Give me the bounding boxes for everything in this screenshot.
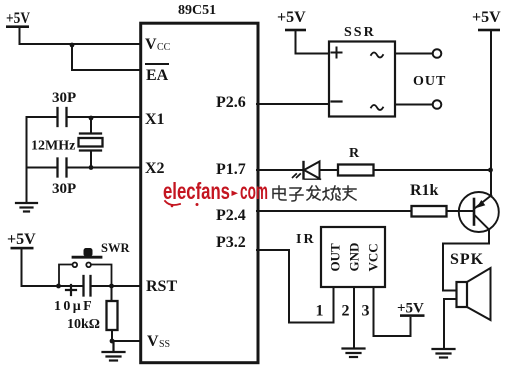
wire SSR out top — [395, 53, 433, 55]
ground IR — [343, 349, 365, 358]
wire X2 right segment — [67, 167, 141, 169]
svg-text:CC: CC — [157, 42, 171, 53]
wire P2.4 to R1k — [257, 210, 412, 212]
wire P3.2 to IR out — [257, 250, 334, 323]
crystal Y1 12MHz — [31, 134, 103, 154]
power +5V top-left — [6, 10, 30, 28]
wire R to +5V rail — [374, 169, 492, 171]
terminal circle out top — [433, 49, 442, 58]
wire X2 left segment — [27, 167, 58, 169]
svg-text:+5V: +5V — [397, 301, 424, 317]
wire right +5V rail down to transistor — [490, 31, 492, 196]
svg-text:R1k: R1k — [410, 182, 439, 199]
diode D1 LED — [293, 162, 321, 180]
svg-text:2: 2 — [342, 303, 350, 320]
power +5V SSR — [277, 9, 306, 31]
wire P2.6 to SSR — [257, 103, 329, 105]
wire SSR +5V stub — [296, 31, 330, 54]
junction RST right — [109, 284, 114, 289]
pin Vcc label — [145, 36, 171, 53]
transistor Q1 PNP — [459, 192, 499, 232]
烧 — [323, 186, 340, 200]
wire +5V stub to Vcc rail — [19, 28, 21, 44]
svg-text:SPK: SPK — [450, 251, 484, 268]
junction Vss — [110, 339, 115, 344]
wire X1 left segment — [27, 116, 58, 118]
SSR ac mark bottom — [371, 105, 383, 110]
wire crystal top lead — [90, 117, 92, 134]
resistor R2 10k — [67, 301, 118, 332]
wire cap to resistor — [111, 286, 113, 301]
svg-text:GND: GND — [347, 243, 362, 272]
友 — [343, 186, 356, 200]
pin Vss label — [147, 333, 170, 350]
terminal circle out bottom — [433, 100, 442, 109]
IC U1 89C51 — [141, 3, 258, 363]
speaker SPK — [450, 251, 491, 320]
svg-text:30P: 30P — [52, 90, 76, 106]
svg-text:X2: X2 — [145, 160, 165, 177]
svg-text:VCC: VCC — [366, 243, 381, 271]
svg-text:elecfans: elecfans — [163, 178, 230, 204]
svg-text:R: R — [349, 146, 360, 161]
svg-text:3: 3 — [362, 303, 370, 320]
wire speaker to ground — [444, 299, 457, 348]
watermark chinese characters — [273, 186, 356, 201]
wire EA branch — [72, 44, 141, 70]
SSR plus terminal mark — [332, 48, 342, 58]
relay U2 SSR box — [329, 25, 395, 117]
pin EA label (overline) — [146, 64, 169, 84]
svg-text:SS: SS — [159, 339, 170, 350]
svg-text:30P: 30P — [52, 181, 76, 197]
capacitor C3 10uF — [54, 276, 94, 314]
svg-text:RST: RST — [146, 278, 177, 295]
wire SSR out bottom — [395, 104, 433, 106]
svg-text:com: com — [240, 178, 268, 204]
switch SWR — [59, 241, 130, 286]
wire reset +5V stub — [21, 249, 23, 286]
电 — [273, 186, 286, 200]
svg-text:OUT: OUT — [413, 74, 446, 89]
SSR ac mark top — [371, 53, 383, 58]
wire collector to speaker — [443, 244, 489, 291]
power +5V right rail — [472, 9, 501, 31]
junction Vcc/EA branch — [70, 43, 75, 48]
wire Vcc to IC — [20, 43, 141, 45]
watermark elecfans.com — [163, 178, 268, 207]
svg-text:EA: EA — [146, 67, 169, 84]
svg-text:P3.2: P3.2 — [216, 234, 246, 251]
svg-text:IR: IR — [296, 232, 316, 247]
wire oscillator left rail — [26, 117, 28, 203]
svg-text:10μF: 10μF — [54, 299, 94, 314]
发 — [307, 186, 320, 200]
svg-text:P1.7: P1.7 — [216, 161, 246, 178]
svg-text:89C51: 89C51 — [178, 3, 216, 18]
svg-text:+5V: +5V — [472, 9, 501, 26]
resistor R1k — [410, 182, 447, 217]
SSR minus terminal mark — [332, 100, 342, 102]
wire RST left segment — [22, 285, 84, 287]
svg-text:+5V: +5V — [7, 231, 36, 248]
wire X1 right segment — [67, 116, 141, 118]
wire IR pin2 to ground — [353, 287, 355, 348]
svg-text:10kΩ: 10kΩ — [67, 317, 100, 332]
wire LED to R — [320, 169, 339, 171]
junction RST left — [56, 284, 61, 289]
svg-text:1: 1 — [316, 303, 324, 320]
svg-text:SWR: SWR — [101, 241, 130, 255]
svg-text:P2.4: P2.4 — [216, 207, 246, 224]
power +5V reset — [7, 231, 36, 249]
svg-text:P2.6: P2.6 — [216, 94, 246, 111]
子 — [290, 188, 303, 201]
capacitor C2 30P (bottom) — [52, 159, 76, 198]
wire crystal bottom lead — [90, 151, 92, 168]
svg-text:V: V — [145, 36, 157, 53]
capacitor C1 30P (top) — [52, 90, 76, 126]
wire collector down — [488, 230, 490, 244]
ground speaker — [433, 349, 455, 358]
IR receiver U3 — [296, 227, 385, 287]
wire P1.7 to LED — [257, 169, 303, 171]
power +5V IR — [397, 301, 425, 317]
svg-text:OUT: OUT — [328, 243, 343, 272]
junction X2/crystal — [89, 165, 94, 170]
wire R1k to base — [447, 210, 475, 212]
resistor R — [338, 146, 374, 176]
junction P1.7 rail — [488, 168, 493, 173]
junction X1/crystal — [89, 116, 94, 121]
svg-text:+5V: +5V — [277, 9, 306, 26]
wire resistor to Vss — [111, 330, 113, 341]
svg-text:12MHz: 12MHz — [31, 139, 75, 154]
ground reset — [103, 341, 125, 361]
ground oscillator rail — [16, 203, 37, 212]
wire IR pin3 to +5V — [374, 287, 411, 336]
wire Vss to IC — [112, 340, 141, 342]
svg-text:SSR: SSR — [344, 25, 376, 40]
svg-text:X1: X1 — [145, 111, 165, 128]
svg-text:+5V: +5V — [6, 10, 30, 27]
svg-text:V: V — [147, 333, 159, 350]
wire RST right segment — [91, 285, 141, 287]
